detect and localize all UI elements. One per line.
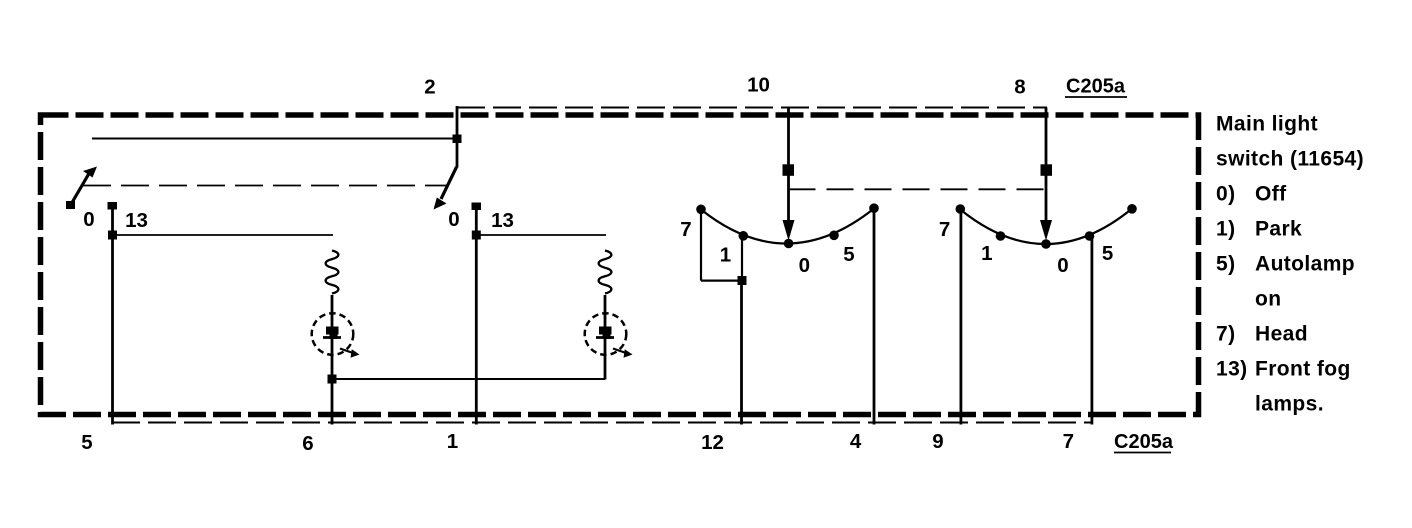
connector C205a top label bbox=[1065, 76, 1127, 98]
svg-text:0: 0 bbox=[83, 208, 94, 231]
bus wire from pin 2 bbox=[92, 138, 457, 140]
junction at pin 12 wire bbox=[738, 276, 747, 285]
pin 1 bottom label bbox=[447, 430, 458, 453]
contact dot 5 (wafer 2) bbox=[1085, 231, 1095, 241]
svg-text:1): 1) bbox=[1216, 218, 1235, 241]
svg-text:1: 1 bbox=[447, 430, 458, 453]
position label 7 (wafer 1) bbox=[680, 218, 691, 241]
position label 13 (left lever) bbox=[125, 209, 148, 232]
wire through lamp 2 bbox=[604, 295, 607, 380]
contact dot 7 (wafer 1) bbox=[696, 205, 706, 215]
wire from dot 7 down (wafer 1) bbox=[700, 211, 702, 281]
junction on pin 1 wire bbox=[472, 231, 481, 240]
svg-text:12: 12 bbox=[701, 431, 724, 454]
svg-text:5: 5 bbox=[1102, 242, 1113, 265]
svg-text:5): 5) bbox=[1216, 253, 1235, 276]
lamp L2 circle bbox=[585, 313, 627, 355]
pin 8 label bbox=[1014, 76, 1025, 99]
svg-text:5: 5 bbox=[843, 243, 854, 266]
junction at pin2 / bus wire bbox=[453, 135, 462, 144]
position label 7 (wafer 2) bbox=[939, 218, 950, 241]
svg-text:7: 7 bbox=[1063, 430, 1074, 453]
mechanical link dashed line (levers) bbox=[83, 185, 449, 187]
svg-text:0: 0 bbox=[448, 208, 459, 231]
contact dot 0 (wafer 1) bbox=[784, 239, 794, 249]
position label 0 (right lever) bbox=[448, 208, 459, 231]
pin 9 wire bbox=[960, 209, 963, 425]
pin 10 wire (wiper 1) bbox=[787, 108, 790, 223]
pin 4 wire bbox=[873, 209, 876, 425]
pin 5 bottom label bbox=[81, 431, 92, 454]
pin 4 bottom label bbox=[850, 430, 862, 453]
position label 0 (wafer 2) bbox=[1057, 254, 1068, 277]
lamp L2 variable arrow bbox=[613, 349, 633, 358]
mechanical link dashed line (rotary wafers) bbox=[789, 188, 1047, 190]
svg-text:0: 0 bbox=[799, 254, 810, 277]
svg-text:0): 0) bbox=[1216, 183, 1235, 206]
pin 12 bottom label bbox=[701, 431, 724, 454]
svg-text:Park: Park bbox=[1255, 218, 1302, 241]
resistor R2 (lamp 2 dimming coil) bbox=[599, 251, 612, 294]
wire from dot 1 down (wafer 1) bbox=[741, 237, 743, 281]
svg-text:4: 4 bbox=[850, 430, 862, 453]
pin 5 wire bbox=[111, 206, 114, 425]
switch lever S1b (fog lamp contact, right) bbox=[434, 167, 457, 210]
pin 12 wire bbox=[740, 281, 743, 425]
connector C205a bottom label bbox=[1114, 431, 1174, 453]
wire to resistor R2 bbox=[476, 234, 606, 236]
junction on pin 8 wire bbox=[1041, 164, 1053, 176]
wire across to pin 12 (wafer 1) bbox=[701, 280, 741, 282]
contact end dot (wafer 2) bbox=[1127, 204, 1137, 214]
svg-text:6: 6 bbox=[302, 432, 313, 455]
position label 13 (right lever) bbox=[491, 209, 514, 232]
contact dot 5 (wafer 1) bbox=[829, 231, 839, 241]
rotary wafer 2 arc bbox=[960, 209, 1132, 244]
position label 0 (wafer 1) bbox=[799, 254, 810, 277]
svg-text:Autolamp: Autolamp bbox=[1255, 253, 1355, 276]
svg-text:on: on bbox=[1255, 288, 1281, 311]
contact end dot (wafer 1) bbox=[869, 203, 879, 213]
svg-text:5: 5 bbox=[81, 431, 92, 454]
svg-text:Main light: Main light bbox=[1216, 113, 1318, 136]
junction below lamp L1 bbox=[328, 375, 337, 384]
svg-text:Front fog: Front fog bbox=[1255, 358, 1351, 381]
position label 0 (left lever) bbox=[83, 208, 94, 231]
position label 5 (wafer 1) bbox=[843, 243, 854, 266]
lamp L1 circle bbox=[312, 313, 354, 355]
junction on pin 5 wire bbox=[108, 231, 117, 240]
switch lever S1a (fog lamp contact, left) bbox=[66, 167, 97, 210]
legend text block bbox=[1216, 113, 1364, 416]
svg-text:1: 1 bbox=[720, 244, 731, 267]
svg-text:9: 9 bbox=[932, 430, 943, 453]
position label 1 (wafer 2) bbox=[981, 242, 992, 265]
svg-text:switch (11654): switch (11654) bbox=[1216, 148, 1364, 171]
pin 2 label bbox=[424, 76, 435, 99]
contact dot 1 (wafer 2) bbox=[996, 231, 1006, 241]
svg-text:0: 0 bbox=[1057, 254, 1068, 277]
resistor R1 (lamp 1 dimming coil) bbox=[326, 251, 339, 294]
terminal cap of pin 5 line bbox=[108, 202, 118, 210]
svg-text:2: 2 bbox=[424, 76, 435, 99]
connector C205a top dashed line bbox=[457, 107, 1047, 109]
contact dot 0 (wafer 2) bbox=[1041, 239, 1051, 249]
pin 8 wire (wiper 2) bbox=[1045, 108, 1048, 223]
connector C205a bottom dashed line bbox=[112, 422, 1092, 424]
lamp L1 filament bbox=[323, 327, 341, 340]
wire through lamp 1 bbox=[331, 295, 334, 425]
contact dot 1 (wafer 1) bbox=[739, 231, 749, 241]
pin 7 wire bbox=[1091, 236, 1094, 425]
svg-text:C205a: C205a bbox=[1066, 76, 1126, 98]
wiper 2 arrowhead bbox=[1040, 220, 1052, 241]
svg-text:7: 7 bbox=[939, 218, 950, 241]
svg-text:13): 13) bbox=[1216, 358, 1248, 381]
svg-text:7: 7 bbox=[680, 218, 691, 241]
pin 1 wire bbox=[475, 207, 478, 425]
contact dot 7 (wafer 2) bbox=[956, 204, 966, 214]
junction on pin 10 wire bbox=[783, 164, 795, 176]
lamp L1 variable arrow bbox=[340, 349, 360, 358]
wire to resistor R1 bbox=[113, 234, 334, 236]
pin 9 bottom label bbox=[932, 430, 943, 453]
svg-text:10: 10 bbox=[747, 74, 770, 97]
svg-text:lamps.: lamps. bbox=[1255, 393, 1324, 416]
position label 1 (wafer 1) bbox=[720, 244, 731, 267]
svg-text:C205a: C205a bbox=[1114, 431, 1174, 453]
main light switch boundary box bbox=[41, 115, 1199, 415]
svg-text:13: 13 bbox=[491, 209, 514, 232]
pin 6 bottom label bbox=[302, 432, 313, 455]
svg-text:Head: Head bbox=[1255, 323, 1308, 346]
pin 10 label bbox=[747, 74, 770, 97]
svg-text:7): 7) bbox=[1216, 323, 1235, 346]
position label 5 (wafer 2) bbox=[1102, 242, 1113, 265]
pin 2 wire bbox=[456, 106, 459, 168]
svg-text:8: 8 bbox=[1014, 76, 1025, 99]
lamp L2 filament bbox=[596, 327, 614, 340]
svg-text:1: 1 bbox=[981, 242, 992, 265]
wiper 1 arrowhead bbox=[783, 220, 795, 241]
pin 7 bottom label bbox=[1063, 430, 1074, 453]
terminal cap of pin 1 line bbox=[472, 203, 482, 211]
wire between lamps bbox=[332, 378, 605, 380]
svg-text:13: 13 bbox=[125, 209, 148, 232]
rotary wafer 1 arc bbox=[701, 209, 874, 244]
svg-text:Off: Off bbox=[1255, 183, 1287, 206]
